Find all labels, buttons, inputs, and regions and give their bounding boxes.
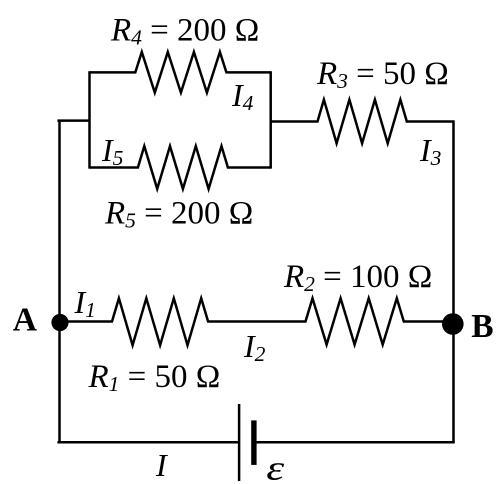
battery ε short thick plate [251,420,256,465]
svg-text:B: B [471,308,493,345]
wire bottom right segment [257,441,455,444]
wire bottom left segment [57,441,239,444]
wire left vertical [58,120,61,444]
resistor R2 [256,298,454,344]
node A [51,314,68,331]
node B [442,313,464,335]
resistor R4 [90,52,271,93]
wire parallel box right edge [269,71,272,168]
resistor R5 [90,146,271,189]
svg-text:I: I [155,447,168,483]
wire parallel box left edge [88,71,91,168]
battery ε long thin plate [238,404,241,481]
svg-text:A: A [13,301,37,338]
wire left stub to parallel box [57,119,89,122]
svg-text:R1 = 50 Ω: R1 = 50 Ω [88,359,221,396]
svg-text:R3 = 50 Ω: R3 = 50 Ω [316,56,449,93]
wire right vertical [452,120,455,443]
resistor R3 [271,100,454,144]
svg-text:ε: ε [266,448,284,484]
resistor R1 [60,298,257,345]
